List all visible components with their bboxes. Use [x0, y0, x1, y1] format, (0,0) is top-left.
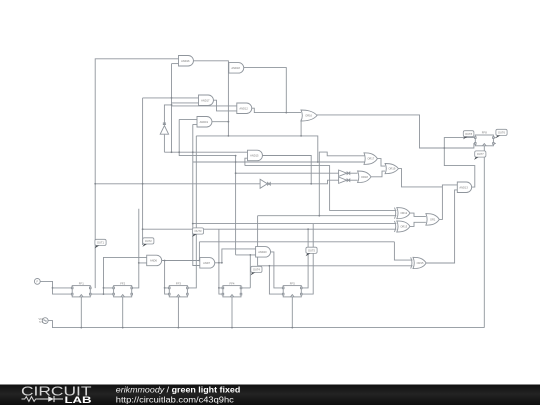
- wire FF3.Q riser: [187, 136, 196, 288]
- svg-text:AND17: AND17: [201, 98, 210, 102]
- flip-flop FF5: [282, 282, 302, 297]
- wire FF bottom pins to rail: [81, 297, 292, 328]
- wire v257.6 flag net: [257, 216, 259, 266]
- node flag OUT4 on x257.6 net: [251, 266, 263, 275]
- wire AND15 lower net: [245, 166, 396, 211]
- wire XOR2 input line y229.1: [143, 228, 397, 230]
- wire NOT1 output net vertical: [164, 64, 171, 153]
- wire FF8 lower branch to AND13 output riser: [444, 148, 475, 187]
- wire OR18 output jog to OR19: [371, 171, 385, 177]
- svg-text:AND6: AND6: [150, 259, 157, 263]
- and-gate AND15: [248, 150, 263, 161]
- wire FF8 bottom to rail: [483, 146, 485, 328]
- and-gate AND7: [200, 258, 215, 269]
- svg-text:OUT5: OUT5: [308, 249, 315, 253]
- svg-text:AND15: AND15: [250, 154, 259, 158]
- wire AND20 upper input loop: [222, 249, 256, 263]
- wire AND19 lower input from x192.8 vertical: [193, 124, 200, 265]
- wire FF8 Qbar stub: [493, 142, 496, 144]
- wire OR17 output jog to OR19: [377, 159, 385, 167]
- wire AND20 lower input: [236, 254, 256, 256]
- or-gate OR14: [426, 214, 439, 226]
- wire AND20 output to FF5: [271, 252, 284, 288]
- svg-text:FF1: FF1: [79, 282, 84, 286]
- wire FF4.Q riser: [241, 255, 250, 288]
- wire AND17 output jog to AND12: [214, 100, 237, 111]
- wire XOR5 upper input branch: [394, 242, 412, 260]
- or-gate OR18: [358, 171, 371, 183]
- wire AND19 upper input riser: [179, 119, 235, 155]
- svg-text:AND20: AND20: [258, 250, 267, 254]
- flip-flop FF2: [113, 282, 133, 297]
- wire OR19 output loop: [398, 169, 442, 187]
- svg-text:OR18: OR18: [361, 175, 368, 179]
- svg-text:LAB: LAB: [65, 395, 92, 405]
- svg-text:OUT1: OUT1: [97, 241, 104, 245]
- not-gate NOT3: [339, 177, 358, 183]
- wire OR16 output to FF8: [317, 115, 475, 148]
- svg-text:FF3: FF3: [176, 282, 181, 286]
- and-gate AND18: [229, 63, 244, 74]
- wire AND7 output net: [215, 230, 223, 295]
- svg-text:OR19: OR19: [389, 167, 396, 171]
- xor-gate XOR1: [395, 208, 410, 219]
- svg-text:OUT3: OUT3: [195, 229, 202, 233]
- flip-flop FF4: [222, 282, 242, 297]
- svg-text:OUT6: OUT6: [498, 131, 505, 135]
- svg-text:AND13: AND13: [459, 185, 468, 189]
- svg-text:OR16: OR16: [305, 114, 312, 118]
- svg-text:FF5: FF5: [290, 282, 295, 286]
- wire AND18 output down to OR16 input net: [244, 68, 286, 113]
- wire vertical x142.6 tap FF1.Q to AND17: [142, 98, 144, 245]
- wire AND12 output to OR16: [252, 108, 301, 112]
- wire AND17 upper input: [143, 97, 199, 99]
- wire FF5 clock branch: [269, 266, 283, 294]
- wire bus y136: [193, 136, 365, 162]
- node flag on FF8.D net: [463, 131, 474, 140]
- xor-gate XOR2: [395, 221, 410, 232]
- flip-flop FF8: [475, 131, 495, 146]
- input terminal F: [34, 279, 40, 285]
- wire XOR1 output jog to OR14: [409, 213, 426, 216]
- voltage source VCC: [38, 317, 48, 324]
- svg-text:OR12: OR12: [400, 211, 407, 215]
- node flag OUT3 on x192.8 net: [192, 228, 203, 237]
- svg-text:OR17: OR17: [367, 157, 374, 161]
- wire AND16 lower input stub: [172, 63, 179, 65]
- and-gate AND17: [199, 95, 214, 106]
- and-gate AND19: [197, 117, 212, 128]
- and-gate AND16: [179, 56, 194, 67]
- svg-text:AND7: AND7: [203, 261, 210, 265]
- not-gate NOT1 pointing up: [160, 123, 168, 134]
- wire bus y152.2: [164, 151, 247, 153]
- wire OR17 upper input riser from FF2.Q net: [319, 152, 364, 216]
- wire AND15 output to OR17: [263, 156, 312, 184]
- wire AND16 output to AND18: [194, 61, 229, 136]
- svg-text:AND16: AND16: [181, 59, 190, 63]
- wire vertical x235.6: [235, 156, 237, 255]
- wire FF5.Qbar riser: [301, 224, 313, 295]
- wire OR16 lower input: [300, 120, 302, 136]
- xor-gate XOR5: [411, 257, 426, 268]
- svg-text:AND19: AND19: [200, 120, 209, 124]
- wire v199.4 to AND7 input net: [198, 242, 200, 261]
- and-gate AND12: [237, 103, 252, 114]
- wire XOR2 input line y223.4: [193, 223, 396, 225]
- wire AND19 output: [212, 121, 228, 123]
- svg-text:AND12: AND12: [239, 106, 248, 110]
- svg-text:AND18: AND18: [231, 66, 240, 70]
- wire AND17 lower input stub: [172, 102, 199, 104]
- wire FF1.Qbar to FF2 and AND6: [90, 257, 146, 294]
- wire OR14 output to AND13: [439, 185, 457, 220]
- svg-text:FF4: FF4: [230, 282, 235, 286]
- not-gate NOT2: [339, 170, 358, 176]
- svg-text:http://circuitlab.com/c43q9hc: http://circuitlab.com/c43q9hc: [116, 395, 234, 405]
- node flag OUT2 on x142.6 net: [142, 238, 154, 247]
- svg-text:5 V: 5 V: [39, 320, 43, 324]
- svg-text:OR1: OR1: [430, 218, 436, 222]
- wire XOR2 output jog to OR14: [409, 222, 426, 226]
- flip-flop FF3: [169, 282, 189, 297]
- and-gate AND6: [147, 255, 162, 266]
- wire FF8 Q stub: [493, 137, 496, 139]
- wire FF1.Q riser to AND16: [95, 59, 178, 288]
- wire AND15 lower input jog: [245, 158, 248, 165]
- svg-text:FF8: FF8: [482, 131, 487, 135]
- wire input F to FF1: [40, 281, 72, 294]
- and-gate AND13: [457, 182, 471, 193]
- or-gate OR19: [385, 164, 398, 174]
- node flag OUT5 on FF5.Q net: [306, 247, 318, 256]
- svg-text:OUT7: OUT7: [477, 152, 484, 156]
- buffer BUF1 on line y183.8: [260, 179, 270, 188]
- or-gate OR17: [364, 153, 377, 165]
- node flag GREEN on FF8.Q: [496, 129, 508, 138]
- node flag OUT1 on FF1.Q net: [95, 239, 107, 248]
- wire H241.8: [199, 241, 394, 243]
- svg-text:OR15: OR15: [417, 261, 424, 265]
- wire FF2.Q to AND6 lower: [132, 209, 147, 288]
- wire AND18 input stubs: [227, 65, 230, 70]
- svg-text:OUT4: OUT4: [253, 268, 260, 272]
- or-gate OR16: [301, 110, 317, 121]
- svg-text:erikmmoody / green light fixed: erikmmoody / green light fixed: [116, 385, 240, 395]
- wire XOR5 output to AND13: [426, 190, 457, 263]
- node flag on FF8 bottom net: [474, 151, 486, 160]
- wire AND12 upper input from NOT1 net: [172, 105, 237, 107]
- svg-text:OR13: OR13: [400, 225, 407, 229]
- wire buffer line FF1.Q tap: [95, 183, 260, 185]
- flip-flop FF1: [71, 282, 91, 297]
- wire buffer output to NOT3: [270, 180, 338, 184]
- wire NOT2 input line: [236, 172, 339, 174]
- wire FF5.Q riser to flag: [301, 229, 308, 288]
- and-gate AND20: [256, 247, 271, 258]
- wire NOT1 input from bus: [163, 135, 165, 153]
- svg-text:OUT2: OUT2: [145, 239, 152, 243]
- wire FF8 D branch: [444, 138, 475, 148]
- wire AND6 output to FF3 and AND7: [162, 261, 200, 295]
- svg-text:OUT8: OUT8: [465, 132, 472, 136]
- wire VCC to rail: [48, 321, 484, 328]
- svg-text:FF2: FF2: [120, 282, 125, 286]
- wire XOR5 lower input line: [258, 265, 413, 267]
- wire XOR1 input line y214.8: [258, 215, 397, 217]
